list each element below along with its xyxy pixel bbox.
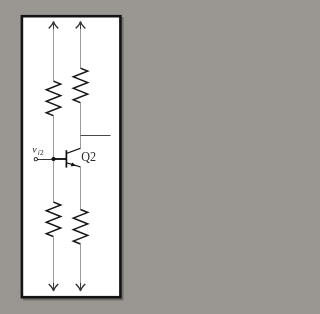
wire : right rail top (arrow shaft to resistor) [80,29,82,68]
label Q2 [81,148,96,164]
wire : left rail top (arrow shaft to resistor) [53,29,55,81]
node VCC-right : top arrow on right rail [76,21,86,29]
wire : right rail (resistor to collector corner) [80,103,82,149]
base lead [54,158,66,160]
emitter diagonal [66,163,80,167]
panel (white page with black frame) [22,16,121,297]
panel shadow [23,17,124,301]
node VCC-left : top arrow on left rail [49,21,59,29]
bottom arrow on right rail [76,283,86,291]
resistor top-right [73,68,87,103]
wire : left rail middle (resistor to junction to resistor) [53,116,55,202]
terminal circle (open) for v_i2 [34,158,37,161]
resistor bottom-right [73,210,87,245]
collector diagonal [66,148,80,153]
wire : right rail bottom (resistor to bottom arrow) [80,244,82,291]
svg-text:Q2: Q2 [81,148,96,164]
wire : left rail bottom (resistor to bottom arrow) [53,237,55,291]
emitter arrowhead [71,162,77,167]
resistor bottom-left [46,202,60,237]
wire : collector node line going right [81,135,111,137]
resistor top-left [46,81,60,116]
wire : input lead from terminal to junction [37,159,53,161]
label v_i2 [32,144,44,157]
base bar [65,150,67,167]
wire : emitter down to bottom-right resistor [80,167,82,210]
junction dot on left rail [52,157,56,161]
transistor Q2 (npn) [54,148,81,168]
bottom arrow on left rail [49,283,59,291]
